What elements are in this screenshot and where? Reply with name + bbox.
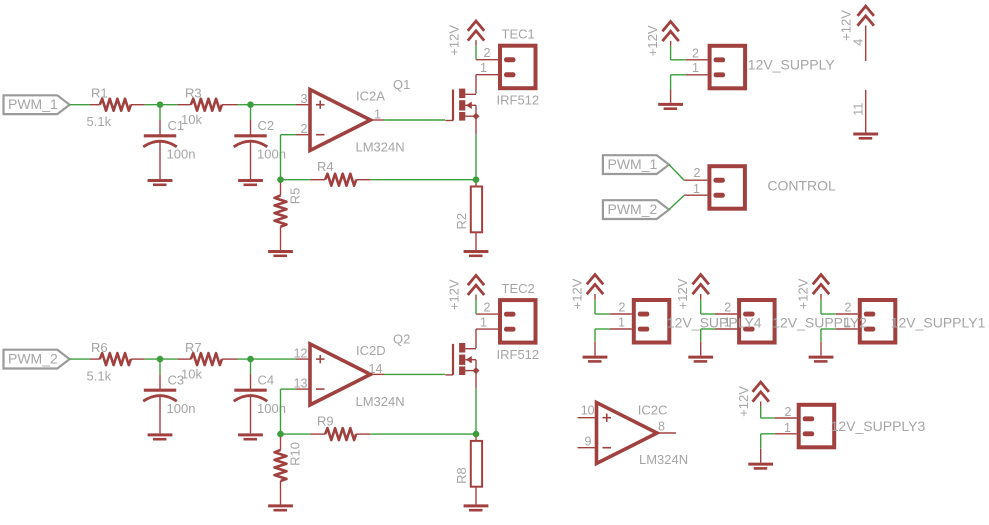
svg-text:R1: R1 [91,86,108,101]
svg-text:+12V: +12V [736,386,751,417]
resistor R4 [310,179,325,181]
svg-text:11: 11 [852,103,866,116]
wire [670,46,672,60]
connector CONTROL [709,166,745,209]
supply +12V [753,382,769,392]
svg-text:R3: R3 [185,86,202,101]
wire [70,358,90,360]
wire [384,373,445,375]
wire [370,433,476,435]
flag PWM_1 [603,155,669,174]
wire [370,179,476,181]
svg-text:8: 8 [658,420,665,434]
flag PWM_1 [4,95,70,114]
svg-text:PWM_2: PWM_2 [608,201,658,217]
svg-text:2: 2 [845,300,852,314]
wire [70,104,90,106]
svg-text:4: 4 [852,39,866,46]
svg-text:TEC1: TEC1 [502,27,535,42]
svg-text:1: 1 [693,182,700,196]
junction [247,356,254,363]
resistor R10 [280,437,282,450]
capacitor C4 100n [250,362,252,374]
capacitor C2 100n [250,108,252,120]
svg-text:2: 2 [484,300,491,314]
ground [148,179,173,182]
svg-text:2: 2 [785,405,792,419]
ground [268,250,293,253]
supply +12V [468,21,484,31]
ground [148,433,173,436]
svg-text:PWM_2: PWM_2 [8,350,58,366]
svg-text:Q2: Q2 [393,331,410,346]
resistor R5 [280,183,282,196]
ground [853,133,878,136]
wire [238,104,297,106]
resistor R8 [475,437,477,441]
resistor R7 10k [177,358,190,360]
power pin 4 of IC2P [858,6,874,16]
connector 12V_SUPPLY1 [860,300,896,343]
op-amp IC2C LM324N [578,417,597,419]
svg-text:IC2C: IC2C [638,403,668,418]
svg-text:9: 9 [585,435,592,449]
svg-text:R8: R8 [454,467,469,484]
supply +12V [693,275,709,285]
wire [475,389,477,434]
svg-text:C2: C2 [258,118,275,133]
svg-text:100n: 100n [167,401,196,416]
svg-text:PWM_1: PWM_1 [8,96,58,112]
svg-text:LM324N: LM324N [356,140,405,155]
svg-text:100n: 100n [167,147,196,162]
resistor R3 10k [177,104,190,106]
wire [280,389,282,434]
ground [464,250,489,253]
svg-text:CONTROL: CONTROL [767,178,836,194]
svg-text:1: 1 [692,61,699,75]
ground [688,356,713,359]
svg-text:IRF512: IRF512 [497,347,540,362]
op-amp IC2D LM324N [296,358,310,360]
supply +12V [813,275,829,285]
svg-text:1: 1 [374,108,381,122]
svg-text:12V_SUPPLY3: 12V_SUPPLY3 [831,418,926,434]
svg-text:5.1k: 5.1k [87,368,112,383]
svg-text:1: 1 [618,315,625,329]
resistor R2 [475,183,477,187]
svg-text:5.1k: 5.1k [87,114,112,129]
wire [280,135,282,180]
transistor Q1 IRF512 [452,90,454,121]
capacitor C1 100n [159,108,161,120]
junction [277,431,284,438]
wire [145,104,178,106]
junction [157,101,164,108]
svg-text:12V_SUPPLY2: 12V_SUPPLY2 [772,314,867,330]
resistor R1 5.1k [90,104,100,106]
svg-text:+12V: +12V [675,278,690,309]
wire [145,358,178,360]
svg-text:2: 2 [692,47,699,61]
supply +12V [662,22,678,32]
wire [610,328,632,330]
wire [760,406,762,418]
wire [820,300,822,314]
ground [464,504,489,507]
ground [238,433,263,436]
wire [836,328,858,330]
svg-text:C1: C1 [168,118,185,133]
svg-text:R7: R7 [185,340,202,355]
power pin 11 of IC2P [865,90,867,133]
svg-text:LM324N: LM324N [639,452,688,467]
supply +12V [587,275,603,285]
svg-text:+12V: +12V [839,10,854,41]
svg-text:Q1: Q1 [393,77,410,92]
svg-text:100n: 100n [257,147,286,162]
junction [157,356,164,363]
wire [610,313,632,315]
svg-text:LM324N: LM324N [356,394,405,409]
wire [700,300,702,314]
wire [684,194,707,196]
transistor Q2 IRF512 [452,344,454,375]
wire [715,328,737,330]
svg-text:R9: R9 [317,413,334,428]
svg-text:IC2D: IC2D [356,343,386,358]
ground [238,179,263,182]
svg-text:2: 2 [484,46,491,60]
svg-text:+12V: +12V [645,25,660,56]
svg-text:12V_SUPPLY: 12V_SUPPLY [748,57,836,73]
wire [281,134,297,136]
svg-text:100n: 100n [257,401,286,416]
wire [281,388,297,390]
svg-text:12: 12 [294,346,308,360]
wire [715,313,737,315]
svg-text:R4: R4 [317,159,334,174]
svg-text:2: 2 [619,300,626,314]
flag PWM_2 [603,200,669,219]
ground [809,356,834,359]
svg-text:+12V: +12V [569,278,584,309]
svg-text:IRF512: IRF512 [497,93,540,108]
svg-text:1: 1 [784,421,791,435]
svg-text:1: 1 [480,315,487,329]
svg-text:12V_SUPPLY1: 12V_SUPPLY1 [891,314,986,330]
wire [594,300,596,314]
supply +12V [468,275,484,285]
svg-text:10k: 10k [181,112,202,127]
resistor R9 [310,433,325,435]
connector TEC1 [476,59,498,61]
wire [283,433,310,435]
svg-text:+12V: +12V [795,278,810,309]
svg-text:+12V: +12V [446,25,461,56]
svg-text:10k: 10k [181,366,202,381]
svg-text:+12V: +12V [446,279,461,310]
ground [748,463,773,466]
svg-text:12V_SUPPLY4: 12V_SUPPLY4 [667,314,762,330]
svg-text:C3: C3 [168,372,185,387]
connector 12V_SUPPLY4 [634,300,670,343]
svg-text:PWM_1: PWM_1 [608,156,658,172]
svg-text:3: 3 [301,92,308,106]
ground [658,103,683,106]
svg-text:R5: R5 [288,188,303,205]
wire [238,358,297,360]
wire [669,195,684,209]
svg-text:TEC2: TEC2 [502,281,535,296]
svg-text:R2: R2 [454,213,469,230]
capacitor C3 100n [159,362,161,374]
junction [473,431,480,438]
wire [384,119,445,121]
wire [283,179,310,181]
svg-text:13: 13 [294,376,308,390]
svg-text:2: 2 [694,166,701,180]
svg-text:R10: R10 [288,442,303,466]
svg-text:2: 2 [724,300,731,314]
ground [268,504,293,507]
svg-text:R6: R6 [91,340,108,355]
wire [686,59,708,61]
connector 12V_SUPPLY [710,46,746,89]
wire [775,433,797,435]
wire [684,179,707,181]
connector TEC2 [476,313,498,315]
op-amp IC2A LM324N [296,104,310,106]
junction [473,176,480,183]
ground [583,356,608,359]
junction [277,176,284,183]
svg-text:10: 10 [581,404,595,418]
wire [475,134,477,179]
wire [836,313,858,315]
connector 12V_SUPPLY3 [799,405,835,448]
svg-text:2: 2 [301,122,308,136]
wire [669,165,684,181]
wire [775,417,797,419]
svg-text:C4: C4 [258,372,275,387]
svg-text:1: 1 [480,61,487,75]
svg-text:IC2A: IC2A [356,89,385,104]
flag PWM_2 [4,350,70,369]
resistor R6 5.1k [90,358,100,360]
svg-text:14: 14 [369,362,383,376]
connector 12V_SUPPLY2 [739,300,775,343]
junction [247,101,254,108]
wire [686,74,708,76]
